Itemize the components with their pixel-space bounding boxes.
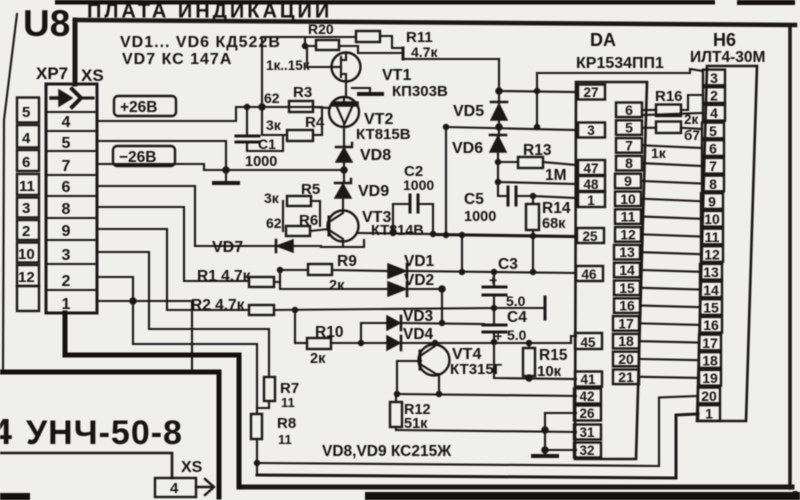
svg-text:9: 9 [62,223,71,240]
svg-text:3: 3 [587,123,595,138]
svg-text:ХS: ХS [81,66,104,85]
svg-text:1: 1 [705,406,713,422]
svg-text:1: 1 [62,296,71,313]
transistor VT1 [307,46,448,100]
svg-text:15: 15 [703,300,719,316]
svg-text:13: 13 [619,244,635,260]
wire emitter rail to DA pin 42 [395,392,577,397]
capacitor C2 [391,163,436,237]
wire DA10 to H6 9 [643,199,701,201]
diode VD4 [387,326,434,350]
svg-text:VD8: VD8 [360,147,391,164]
svg-text:КТ815В: КТ815В [356,126,411,143]
DA right pin column [613,102,642,385]
svg-text:5: 5 [709,123,717,139]
svg-text:13: 13 [703,264,719,280]
resistor R3 [264,84,313,112]
DA left pin 1 [578,192,605,208]
DA left pin 25 [577,228,604,244]
svg-text:R20: R20 [308,21,334,37]
connector XP7 outer pin column [17,98,39,312]
wire pin 9 to R2 [97,229,249,310]
wire DA8 to H6 7 [644,163,702,166]
svg-text:+26В: +26В [120,99,158,116]
svg-text:8: 8 [62,201,71,218]
svg-text:12: 12 [704,247,720,263]
svg-text:Н6: Н6 [713,30,736,50]
svg-text:1М: 1М [545,167,567,184]
svg-text:1: 1 [587,193,595,208]
svg-text:VD2: VD2 [404,272,434,289]
resistor R2 [191,297,494,343]
svg-text:1000: 1000 [464,209,496,225]
wire VT1 drain branch down [444,127,449,238]
svg-text:4: 4 [22,130,31,147]
svg-text:11: 11 [19,178,35,195]
wire R1 to VD2 [280,282,388,289]
svg-text:25: 25 [582,229,598,244]
svg-text:6: 6 [62,179,71,196]
node DA 26/31/32 tie [542,413,576,455]
svg-text:18: 18 [702,353,718,369]
svg-text:7: 7 [62,158,71,175]
wire VT4 base [397,361,421,394]
svg-text:31: 31 [579,425,595,440]
wire DA20 to H6 18 [641,359,699,360]
DA left pin 48 [578,176,605,192]
svg-text:12: 12 [18,269,35,286]
svg-text:14: 14 [703,282,719,298]
DA left pin 3 [578,123,605,139]
svg-text:10: 10 [620,191,636,207]
wire R12 to DA pin 31 [396,430,576,432]
wire R14 branch down to VD1 row [531,236,536,275]
svg-text:16: 16 [703,317,719,333]
svg-text:ХS: ХS [181,459,203,476]
wire +26 rail up to R20 net [259,37,265,110]
wire to H6 pin 3 [537,69,703,73]
resistor R6 [266,212,329,236]
svg-text:15: 15 [619,280,635,296]
svg-text:9: 9 [624,173,632,189]
svg-text:7: 7 [709,158,717,174]
transistor VT2 [329,97,411,143]
svg-text:1000: 1000 [245,154,277,170]
svg-text:11: 11 [705,229,720,245]
svg-text:6: 6 [709,141,717,157]
svg-text:1к: 1к [651,145,667,161]
svg-text:C5: C5 [464,191,484,208]
svg-text:VD5: VD5 [453,103,484,120]
svg-text:2: 2 [710,88,718,104]
svg-text:11: 11 [621,209,636,225]
wire to DA pin 41 [494,342,576,379]
chip DA body [575,82,647,459]
resistor R5 [264,181,320,231]
ground node dot [223,167,229,173]
svg-text:U8: U8 [23,3,70,44]
capacitor C4 [483,309,527,345]
svg-text:R8: R8 [277,415,296,432]
svg-text:26: 26 [579,406,595,421]
wire node to DA vertical [535,73,540,130]
wire DA14 to H6 13 [642,270,700,272]
svg-text:3: 3 [22,200,30,217]
svg-text:VD7 КС 147А: VD7 КС 147А [122,51,232,68]
resistor R11 [356,29,438,60]
thick bus wire B to bottom [2,372,219,497]
connector XP7/XS labels [36,64,104,85]
diode VD1 [388,253,576,278]
svg-text:3: 3 [62,247,71,264]
svg-text:47: 47 [583,161,598,176]
thick bus wire A from connector [65,313,239,487]
svg-text:R2 4.7к: R2 4.7к [191,297,245,314]
svg-text:17: 17 [702,335,718,351]
svg-text:4: 4 [710,105,718,121]
svg-text:DA: DA [590,30,616,50]
H6 pin column [698,70,725,422]
svg-text:ИЛТ4-30М: ИЛТ4-30М [690,49,765,66]
svg-text:УНЧ-50-8: УНЧ-50-8 [26,414,183,452]
wire VD4 row to DA pin 45 [401,336,576,343]
svg-text:46: 46 [581,267,597,282]
svg-text:21: 21 [618,369,634,385]
wire DA13 to H6 12 [642,252,700,254]
wire DA17 to H6 16 [641,323,699,325]
diode VD6 [452,127,506,165]
wire gnd net from pin 5 [97,141,226,170]
svg-text:ПЛАТА ИНДИКАЦИИ: ПЛАТА ИНДИКАЦИИ [87,1,332,23]
resistor R13 [498,142,576,184]
display H6 body [697,66,757,421]
svg-text:5: 5 [625,120,633,136]
svg-text:9: 9 [708,194,716,210]
svg-text:2к: 2к [329,278,345,294]
svg-text:45: 45 [580,335,596,350]
svg-text:3к: 3к [266,117,282,133]
svg-text:62: 62 [266,215,282,231]
DA left pin 26 [574,406,601,422]
diode VD3 [387,308,484,330]
line under UNCh text [0,453,172,478]
svg-text:8: 8 [709,176,717,192]
capacitor C3 [483,256,526,325]
svg-text:41: 41 [580,372,596,387]
ground symbol under DA [533,454,557,458]
svg-text:в: в [792,488,799,500]
svg-text:R9: R9 [337,253,357,270]
wire top bias rail [262,36,356,38]
svg-text:20: 20 [618,351,634,367]
wire pin 1 [97,298,192,372]
svg-text:17: 17 [618,315,634,331]
svg-text:14: 14 [619,262,635,278]
ground stub right of C3 [492,297,546,319]
wire long to H6 pin 20 [257,396,698,466]
svg-text:6: 6 [625,102,633,118]
svg-text:R3: R3 [293,84,312,101]
svg-text:VD1: VD1 [404,253,435,270]
diode VD8 zener [336,129,391,182]
svg-text:2: 2 [62,273,71,290]
wire R8 down to bottom nets [255,439,260,475]
DA left pin 47 [578,160,605,176]
svg-text:12: 12 [620,226,636,242]
wire node to DA pin 27 [499,91,576,92]
wire DA7 to H6 6 [644,145,702,148]
DA left pin 32 [574,443,601,459]
svg-text:VD6: VD6 [452,140,483,157]
svg-text:1000: 1000 [403,177,434,193]
DA left pin 45 [575,333,602,350]
svg-text:VD4: VD4 [403,326,434,343]
svg-text:68к: 68к [542,216,566,232]
svg-text:20: 20 [701,388,717,404]
wire DA9 to H6 8 [643,181,701,184]
svg-text:32: 32 [579,443,594,458]
svg-text:8: 8 [625,155,633,171]
svg-text:5: 5 [62,135,71,152]
diode VD7 [212,239,293,256]
wire DA15 to H6 14 [642,288,700,290]
resistor R8 [251,401,296,447]
wire pin 6 to VD7 [97,186,276,246]
resistor R10 [295,323,387,367]
svg-text:48: 48 [583,177,599,192]
svg-text:4.7к: 4.7к [411,44,438,60]
resistor R4 [262,107,330,141]
svg-text:2к: 2к [310,351,326,367]
capacitor C5 [464,182,533,225]
DA left pin 42 [574,389,601,405]
svg-text:3к: 3к [264,190,280,206]
connector mating arrow symbol [51,89,93,107]
svg-text:18: 18 [618,333,634,349]
svg-text:7: 7 [625,137,633,153]
connector XS inner cell column [46,84,97,313]
svg-text:5.0: 5.0 [507,327,527,343]
svg-text:VT1: VT1 [382,67,411,84]
wire long to H6 pin 1 [257,414,698,478]
svg-text:C1: C1 [258,136,276,152]
svg-text:11: 11 [281,395,295,410]
svg-text:10: 10 [18,246,35,263]
svg-text:б7: б7 [684,128,700,143]
connector XS bottom label [181,459,203,476]
svg-text:VD9: VD9 [358,183,389,200]
wire pin 8 to R1 [97,207,249,281]
resistor R15 [523,341,568,382]
transistor VT3 [328,209,424,242]
svg-text:R15: R15 [539,347,568,364]
svg-text:62: 62 [264,90,280,106]
svg-text:R1 4.7к: R1 4.7к [197,268,251,285]
wire -26V from pin 7 [97,164,226,170]
wire VD6 node to DA pin 48 [496,162,577,185]
resistor R7 [264,377,299,410]
connector XS bottom arrow [196,479,214,495]
wire +26V from pin 4 [97,107,320,121]
svg-text:VD7: VD7 [212,239,243,256]
svg-text:5.0: 5.0 [506,293,526,309]
svg-text:−26В: −26В [119,149,157,166]
DA left pin 41 [575,372,602,388]
svg-text:4: 4 [0,411,12,452]
svg-text:10: 10 [704,211,720,227]
svg-text:ХР7: ХР7 [36,64,68,83]
svg-text:1к..15к: 1к..15к [266,58,310,73]
-26V label box [113,146,175,166]
wire DA12 to H6 11 [643,234,701,236]
svg-text:VD1... VD6 КД522В: VD1... VD6 КД522В [120,34,281,51]
svg-text:42: 42 [579,389,594,404]
resistor R12 [390,394,431,432]
wire DA21 to H6 19 [640,377,699,378]
resistor R20 [303,21,359,53]
wire C5 node to DA pin 1 [531,194,577,199]
wire pin 2 to R8 [97,277,257,408]
svg-text:КТ814В: КТ814В [371,223,424,239]
diode VD2 [388,272,445,323]
connector XS bottom box pin 4 [155,478,196,497]
ground symbol near VT1 [352,88,382,94]
svg-text:10к: 10к [537,363,562,380]
wire gnd rail to VD8/VD9 node [226,169,344,171]
svg-text:4: 4 [62,114,71,131]
resistor R1 [197,268,308,288]
wire DA11 to H6 10 [643,217,701,219]
wire VD5 node to DA pin 3 [444,124,577,130]
wire VT3 to DA pin 25 [358,233,576,236]
+26V label box [114,96,176,116]
DA left pin 27 [578,85,605,101]
resistor R16 [644,88,703,143]
node VD1 to pin25 net [460,233,465,275]
DA left pin 31 [574,425,601,441]
svg-text:R14: R14 [542,200,571,217]
svg-text:КР1534ПП1: КР1534ПП1 [576,55,664,72]
svg-text:КП303В: КП303В [392,83,448,100]
wire net to DA pin 25 [433,235,576,237]
svg-text:C4: C4 [507,309,527,326]
wire DA6 row to H6 4 [644,113,702,115]
value 1k label [651,145,667,161]
svg-text:C3: C3 [498,256,518,273]
svg-text:КТ315Г: КТ315Г [450,361,503,378]
resistor R14 [526,196,571,239]
wire VT3 emitter loop [293,240,364,247]
transistor VT4 [419,341,503,395]
svg-text:VD8,VD9 КС215Ж: VD8,VD9 КС215Ж [322,443,452,460]
resistor R9 [308,253,388,294]
svg-text:19: 19 [702,370,718,386]
diode VD5 [453,59,507,128]
svg-text:3: 3 [710,70,718,86]
svg-text:6: 6 [22,154,30,171]
svg-text:5: 5 [22,104,30,121]
svg-text:16: 16 [619,298,635,314]
svg-text:27: 27 [583,85,598,100]
capacitor C1 [236,105,283,171]
wire VT1 source to VT2 collector node [346,82,502,97]
R20 value 1k..15k [266,58,310,73]
svg-text:R16: R16 [655,88,683,105]
svg-text:11: 11 [278,432,292,447]
wire pin 3 to R7 [97,252,269,377]
wire VT1 drain rail [358,48,499,59]
wire DA18 to H6 17 [641,341,699,342]
ground symbol under C1 [214,170,238,183]
diode VD9 zener [335,179,389,211]
svg-text:2: 2 [22,223,30,240]
DA left pin 46 [576,266,603,282]
wire DA16 to H6 15 [642,306,700,308]
svg-text:4: 4 [170,480,179,497]
